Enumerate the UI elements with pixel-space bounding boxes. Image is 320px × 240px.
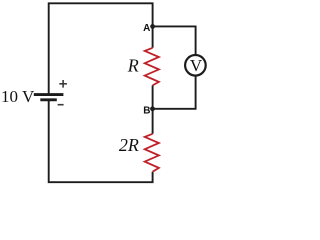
svg-text:2R: 2R xyxy=(119,135,139,155)
resistor R (red zigzag) xyxy=(145,48,159,86)
wire: branch from node A to voltmeter top xyxy=(153,26,196,54)
svg-text:B: B xyxy=(143,105,150,116)
wire: bottom loop from battery bottom down, across bottom, up to 2R xyxy=(49,100,153,182)
resistor 2R (red zigzag) xyxy=(145,134,159,172)
battery minus sign xyxy=(58,104,64,106)
svg-text:R: R xyxy=(127,55,139,75)
wire: branch from voltmeter bottom to node B xyxy=(153,77,196,109)
battery 10 V top plate (positive, long) xyxy=(34,93,64,96)
voltmeter U1 circle xyxy=(185,55,206,76)
svg-text:A: A xyxy=(143,23,150,34)
node B xyxy=(150,106,155,111)
node A xyxy=(150,24,155,29)
wire: between R and node B, continuing to 2R xyxy=(152,85,154,133)
battery plus sign xyxy=(59,80,67,88)
svg-text:10 V: 10 V xyxy=(1,87,35,106)
svg-text:V: V xyxy=(190,56,203,75)
battery 10 V bottom plate (negative, short) xyxy=(40,98,57,101)
wire: left/top/right main loop upper part xyxy=(49,3,153,93)
